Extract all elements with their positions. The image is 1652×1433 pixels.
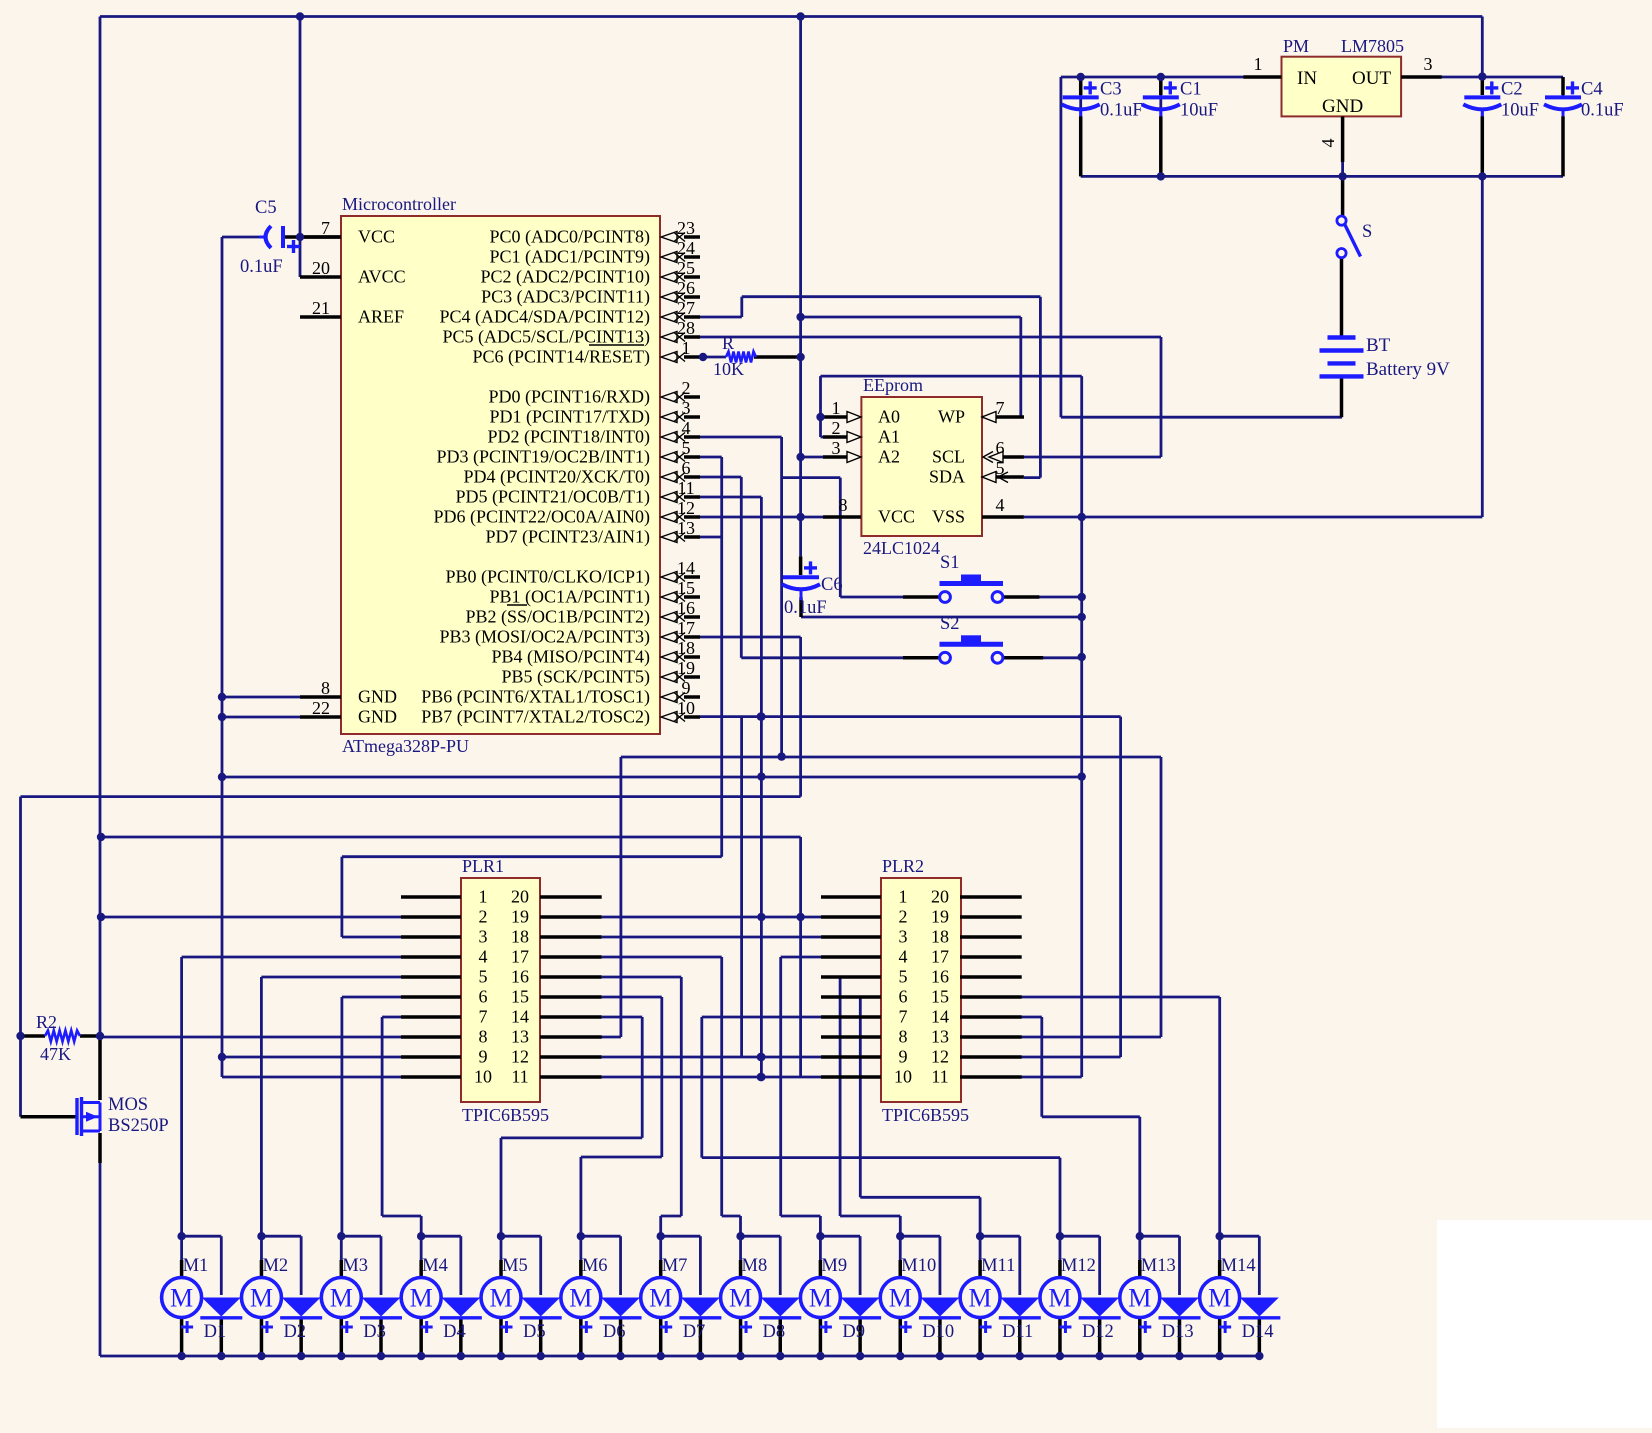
svg-text:PC2 (ADC2/PCINT10): PC2 (ADC2/PCINT10) xyxy=(480,267,650,288)
svg-text:0.1uF: 0.1uF xyxy=(240,257,283,277)
svg-text:M: M xyxy=(489,1284,512,1313)
svg-text:C5: C5 xyxy=(255,198,277,218)
svg-text:M8: M8 xyxy=(742,1256,768,1276)
svg-text:1: 1 xyxy=(832,398,841,418)
svg-text:Microcontroller: Microcontroller xyxy=(342,194,456,214)
svg-text:18: 18 xyxy=(931,927,949,947)
svg-text:7: 7 xyxy=(321,218,330,238)
svg-text:PD7 (PCINT23/AIN1): PD7 (PCINT23/AIN1) xyxy=(486,527,651,548)
svg-text:C1: C1 xyxy=(1180,79,1202,99)
svg-text:GND: GND xyxy=(358,707,397,727)
svg-text:BT: BT xyxy=(1366,335,1391,356)
svg-text:BS250P: BS250P xyxy=(108,1116,169,1136)
svg-text:4: 4 xyxy=(479,947,488,967)
svg-text:M13: M13 xyxy=(1141,1256,1176,1276)
svg-text:PD4 (PCINT20/XCK/T0): PD4 (PCINT20/XCK/T0) xyxy=(463,467,650,488)
svg-text:PD6 (PCINT22/OC0A/AIN0): PD6 (PCINT22/OC0A/AIN0) xyxy=(433,507,650,528)
svg-text:M12: M12 xyxy=(1061,1256,1096,1276)
svg-text:3: 3 xyxy=(1424,54,1433,74)
svg-text:11: 11 xyxy=(677,478,694,498)
svg-text:M: M xyxy=(250,1284,273,1313)
svg-text:M: M xyxy=(330,1284,353,1313)
svg-text:17: 17 xyxy=(931,947,949,967)
svg-text:M: M xyxy=(1128,1284,1151,1313)
svg-text:13: 13 xyxy=(677,518,695,538)
svg-text:23: 23 xyxy=(677,218,695,238)
svg-text:16: 16 xyxy=(931,967,949,987)
svg-text:M7: M7 xyxy=(662,1256,688,1276)
svg-text:10uF: 10uF xyxy=(1180,100,1218,120)
svg-text:6: 6 xyxy=(899,987,908,1007)
svg-text:7: 7 xyxy=(479,1007,488,1027)
svg-text:M: M xyxy=(729,1284,752,1313)
svg-text:D2: D2 xyxy=(283,1322,306,1342)
svg-text:PD5 (PCINT21/OC0B/T1): PD5 (PCINT21/OC0B/T1) xyxy=(455,487,650,508)
svg-text:1: 1 xyxy=(479,887,488,907)
svg-text:17: 17 xyxy=(511,947,529,967)
svg-text:ATmega328P-PU: ATmega328P-PU xyxy=(342,736,469,756)
svg-text:8: 8 xyxy=(839,495,848,515)
svg-text:0.1uF: 0.1uF xyxy=(1581,100,1624,120)
svg-text:SCL: SCL xyxy=(932,447,965,467)
svg-text:R: R xyxy=(722,333,734,353)
svg-text:13: 13 xyxy=(931,1027,949,1047)
svg-text:5: 5 xyxy=(479,967,488,987)
svg-text:3: 3 xyxy=(479,927,488,947)
svg-text:7: 7 xyxy=(899,1007,908,1027)
svg-text:16: 16 xyxy=(677,598,695,618)
svg-text:3: 3 xyxy=(832,438,841,458)
svg-text:M4: M4 xyxy=(422,1256,448,1276)
svg-text:24: 24 xyxy=(677,238,695,258)
svg-text:PB3 (MOSI/OC2A/PCINT3): PB3 (MOSI/OC2A/PCINT3) xyxy=(439,627,650,648)
svg-text:2: 2 xyxy=(899,907,908,927)
svg-text:D1: D1 xyxy=(204,1322,227,1342)
svg-text:C2: C2 xyxy=(1501,79,1523,99)
svg-text:GND: GND xyxy=(358,687,397,707)
svg-text:PB2 (SS/OC1B/PCINT2): PB2 (SS/OC1B/PCINT2) xyxy=(465,607,650,628)
svg-text:1: 1 xyxy=(899,887,908,907)
svg-text:12: 12 xyxy=(931,1047,949,1067)
svg-text:14: 14 xyxy=(511,1007,529,1027)
svg-text:21: 21 xyxy=(312,298,330,318)
svg-text:2: 2 xyxy=(832,418,841,438)
svg-text:S2: S2 xyxy=(940,614,960,634)
svg-text:26: 26 xyxy=(677,278,695,298)
svg-text:19: 19 xyxy=(677,658,695,678)
svg-text:D11: D11 xyxy=(1002,1322,1033,1342)
svg-text:VCC: VCC xyxy=(878,507,915,527)
svg-text:15: 15 xyxy=(677,578,695,598)
svg-text:A0: A0 xyxy=(878,407,900,427)
svg-text:M: M xyxy=(969,1284,992,1313)
svg-text:17: 17 xyxy=(677,618,695,638)
svg-text:PM: PM xyxy=(1283,36,1309,56)
svg-text:MOS: MOS xyxy=(108,1095,148,1115)
svg-text:1: 1 xyxy=(1254,54,1263,74)
svg-text:M2: M2 xyxy=(262,1256,288,1276)
svg-text:9: 9 xyxy=(899,1047,908,1067)
svg-text:IN: IN xyxy=(1297,68,1317,89)
svg-text:A1: A1 xyxy=(878,427,900,447)
svg-text:PC1 (ADC1/PCINT9): PC1 (ADC1/PCINT9) xyxy=(489,247,650,268)
svg-text:D8: D8 xyxy=(763,1322,786,1342)
svg-text:PD2 (PCINT18/INT0): PD2 (PCINT18/INT0) xyxy=(488,427,651,448)
svg-text:EEprom: EEprom xyxy=(863,375,923,395)
svg-text:PB7 (PCINT7/XTAL2/TOSC2): PB7 (PCINT7/XTAL2/TOSC2) xyxy=(421,707,650,728)
svg-text:0.1uF: 0.1uF xyxy=(1100,100,1143,120)
svg-text:GND: GND xyxy=(1322,96,1363,117)
svg-text:PD3 (PCINT19/OC2B/INT1): PD3 (PCINT19/OC2B/INT1) xyxy=(436,447,650,468)
svg-text:10: 10 xyxy=(677,698,695,718)
svg-text:C3: C3 xyxy=(1100,79,1122,99)
svg-text:8: 8 xyxy=(899,1027,908,1047)
svg-text:12: 12 xyxy=(677,498,695,518)
svg-text:20: 20 xyxy=(312,258,330,278)
svg-text:C4: C4 xyxy=(1581,79,1603,99)
svg-text:R2: R2 xyxy=(36,1012,57,1032)
svg-text:14: 14 xyxy=(677,558,695,578)
svg-text:12: 12 xyxy=(511,1047,529,1067)
svg-text:M: M xyxy=(410,1284,433,1313)
svg-text:4: 4 xyxy=(1318,139,1338,148)
svg-text:TPIC6B595: TPIC6B595 xyxy=(462,1105,549,1125)
svg-text:4: 4 xyxy=(899,947,908,967)
svg-text:10uF: 10uF xyxy=(1501,100,1539,120)
svg-text:10: 10 xyxy=(474,1067,492,1087)
svg-text:3: 3 xyxy=(899,927,908,947)
svg-text:25: 25 xyxy=(677,258,695,278)
svg-text:PB5 (SCK/PCINT5): PB5 (SCK/PCINT5) xyxy=(501,667,650,688)
svg-text:C6: C6 xyxy=(821,575,843,595)
svg-text:M: M xyxy=(889,1284,912,1313)
svg-text:M14: M14 xyxy=(1221,1256,1256,1276)
svg-text:PD0 (PCINT16/RXD): PD0 (PCINT16/RXD) xyxy=(488,387,650,408)
svg-text:D14: D14 xyxy=(1242,1322,1274,1342)
svg-text:M: M xyxy=(649,1284,672,1313)
svg-text:PB0 (PCINT0/CLKO/ICP1): PB0 (PCINT0/CLKO/ICP1) xyxy=(445,567,650,588)
svg-text:AVCC: AVCC xyxy=(358,267,406,287)
svg-text:0.1uF: 0.1uF xyxy=(784,598,827,618)
svg-text:PB6 (PCINT6/XTAL1/TOSC1): PB6 (PCINT6/XTAL1/TOSC1) xyxy=(421,687,650,708)
svg-text:16: 16 xyxy=(511,967,529,987)
svg-text:11: 11 xyxy=(931,1067,948,1087)
svg-text:6: 6 xyxy=(479,987,488,1007)
svg-text:M: M xyxy=(569,1284,592,1313)
svg-text:M5: M5 xyxy=(502,1256,528,1276)
svg-text:PC0 (ADC0/PCINT8): PC0 (ADC0/PCINT8) xyxy=(489,227,650,248)
svg-text:SDA: SDA xyxy=(929,467,965,487)
svg-text:VCC: VCC xyxy=(358,227,395,247)
svg-text:9: 9 xyxy=(479,1047,488,1067)
svg-text:20: 20 xyxy=(511,887,529,907)
svg-text:15: 15 xyxy=(931,987,949,1007)
svg-text:19: 19 xyxy=(511,907,529,927)
svg-text:28: 28 xyxy=(677,318,695,338)
svg-text:18: 18 xyxy=(511,927,529,947)
svg-text:D7: D7 xyxy=(683,1322,706,1342)
svg-text:27: 27 xyxy=(677,298,695,318)
svg-text:PD1 (PCINT17/TXD): PD1 (PCINT17/TXD) xyxy=(490,407,651,428)
svg-text:M1: M1 xyxy=(183,1256,209,1276)
svg-text:5: 5 xyxy=(899,967,908,987)
svg-text:S: S xyxy=(1362,222,1372,242)
svg-text:24LC1024: 24LC1024 xyxy=(863,538,940,558)
svg-text:M10: M10 xyxy=(901,1256,936,1276)
svg-text:D6: D6 xyxy=(603,1322,626,1342)
svg-text:D12: D12 xyxy=(1082,1322,1114,1342)
svg-text:PLR1: PLR1 xyxy=(462,856,504,876)
svg-text:M: M xyxy=(170,1284,193,1313)
svg-text:4: 4 xyxy=(996,495,1005,515)
svg-text:M6: M6 xyxy=(582,1256,608,1276)
svg-text:WP: WP xyxy=(938,407,965,427)
svg-text:M3: M3 xyxy=(342,1256,368,1276)
svg-text:M: M xyxy=(1208,1284,1231,1313)
svg-text:10: 10 xyxy=(894,1067,912,1087)
svg-text:8: 8 xyxy=(479,1027,488,1047)
svg-text:PB4 (MISO/PCINT4): PB4 (MISO/PCINT4) xyxy=(491,647,650,668)
svg-text:TPIC6B595: TPIC6B595 xyxy=(882,1105,969,1125)
svg-text:Battery 9V: Battery 9V xyxy=(1366,359,1450,380)
svg-text:VSS: VSS xyxy=(932,507,965,527)
svg-text:13: 13 xyxy=(511,1027,529,1047)
svg-text:M: M xyxy=(809,1284,832,1313)
svg-text:D9: D9 xyxy=(842,1322,865,1342)
svg-text:20: 20 xyxy=(931,887,949,907)
svg-text:D10: D10 xyxy=(922,1322,954,1342)
svg-text:A2: A2 xyxy=(878,447,900,467)
svg-text:PC6 (PCINT14/RESET): PC6 (PCINT14/RESET) xyxy=(472,347,650,368)
svg-text:22: 22 xyxy=(312,698,330,718)
svg-text:15: 15 xyxy=(511,987,529,1007)
svg-text:M9: M9 xyxy=(821,1256,847,1276)
svg-text:19: 19 xyxy=(931,907,949,927)
svg-text:14: 14 xyxy=(931,1007,949,1027)
svg-text:LM7805: LM7805 xyxy=(1341,36,1404,56)
svg-text:D5: D5 xyxy=(523,1322,546,1342)
svg-text:8: 8 xyxy=(321,678,330,698)
svg-text:2: 2 xyxy=(479,907,488,927)
svg-text:D13: D13 xyxy=(1162,1322,1194,1342)
svg-text:M: M xyxy=(1048,1284,1071,1313)
svg-text:47K: 47K xyxy=(40,1044,71,1064)
svg-text:D4: D4 xyxy=(443,1322,466,1342)
svg-text:D3: D3 xyxy=(363,1322,386,1342)
svg-text:PC3 (ADC3/PCINT11): PC3 (ADC3/PCINT11) xyxy=(481,287,650,308)
svg-text:OUT: OUT xyxy=(1352,68,1391,89)
svg-text:PLR2: PLR2 xyxy=(882,856,924,876)
svg-text:18: 18 xyxy=(677,638,695,658)
svg-text:M11: M11 xyxy=(981,1256,1015,1276)
svg-text:11: 11 xyxy=(511,1067,528,1087)
svg-text:S1: S1 xyxy=(940,553,960,573)
svg-text:PC4 (ADC4/SDA/PCINT12): PC4 (ADC4/SDA/PCINT12) xyxy=(439,307,650,328)
svg-text:10K: 10K xyxy=(713,359,744,379)
svg-text:AREF: AREF xyxy=(358,307,404,327)
svg-text:7: 7 xyxy=(996,398,1005,418)
